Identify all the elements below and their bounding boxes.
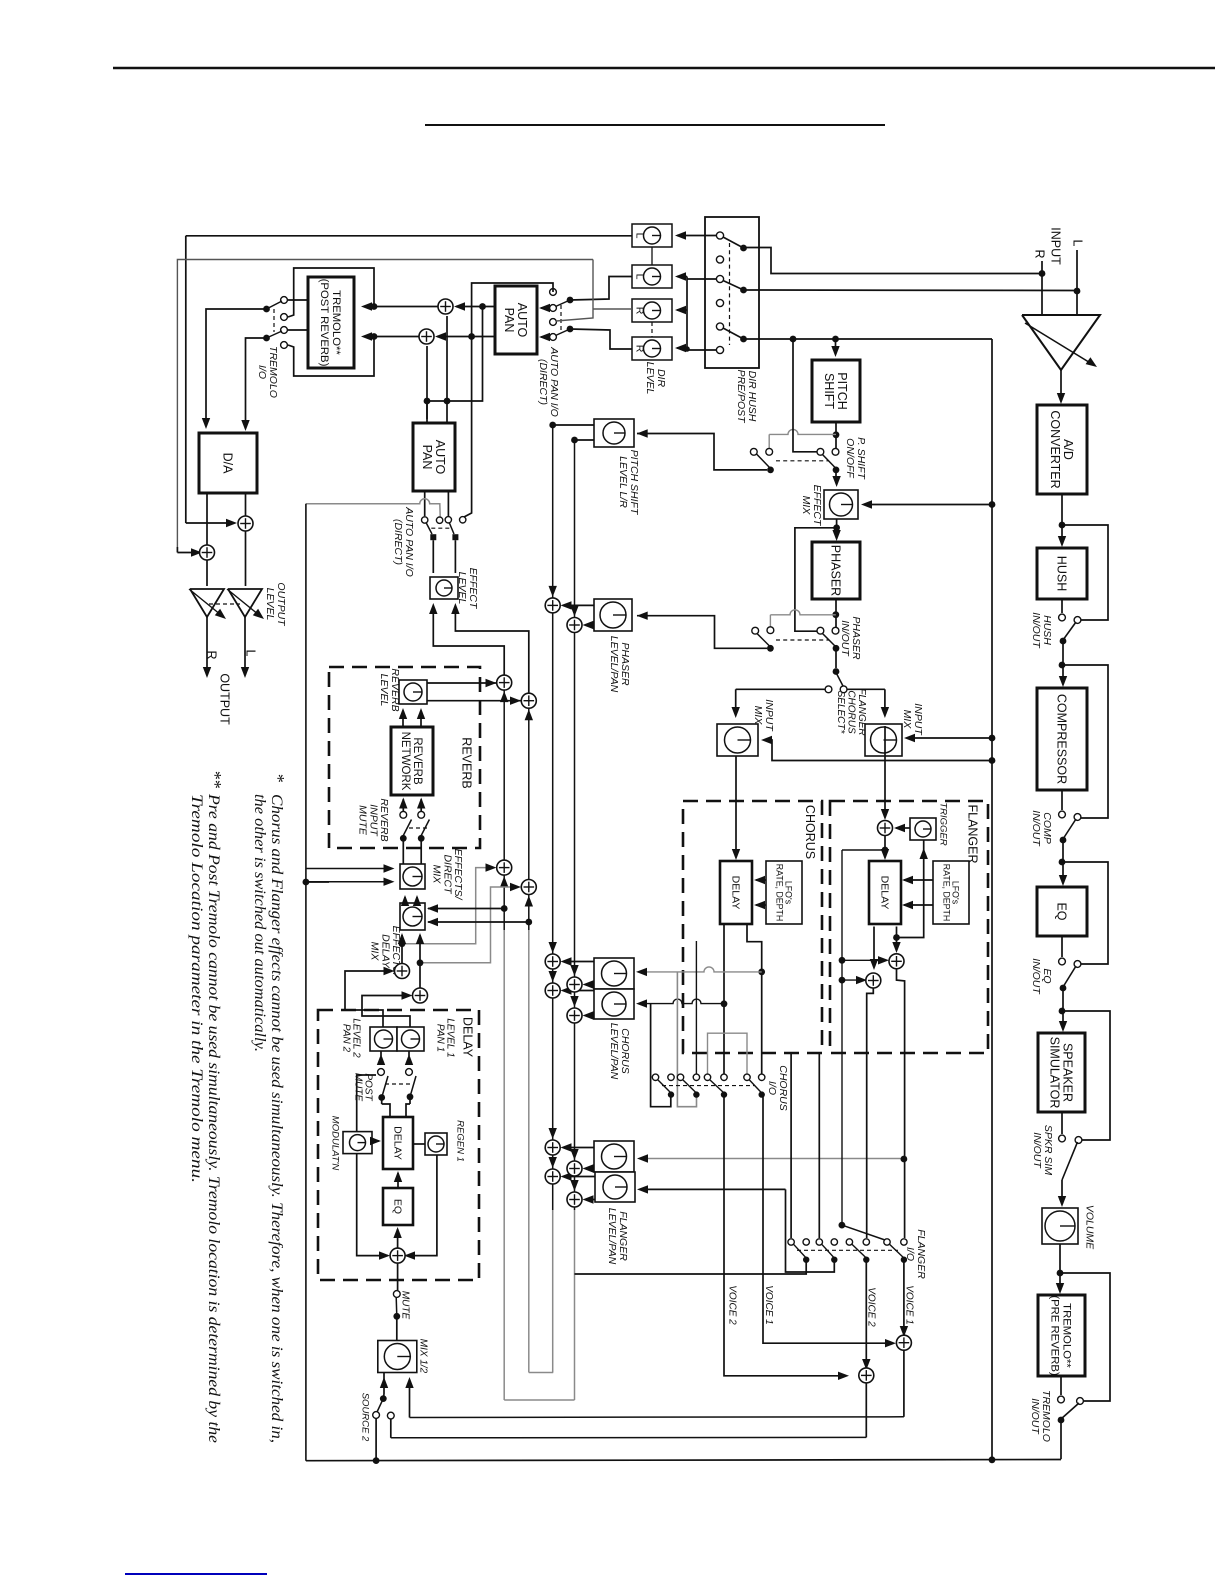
svg-text:POST: POST [363,1073,374,1101]
svg-text:OUTPUT: OUTPUT [218,673,232,725]
svg-text:PRE/POST: PRE/POST [735,369,747,424]
svg-text:L: L [633,233,645,239]
svg-text:INPUT: INPUT [912,703,924,736]
svg-text:R: R [633,345,645,353]
svg-text:EQ: EQ [1041,968,1053,983]
svg-text:the other is switched out auto: the other is switched out automatically. [251,794,268,1052]
svg-text:PITCH SHIFT: PITCH SHIFT [628,450,640,516]
svg-text:REVERB: REVERB [411,737,423,785]
svg-text:MODULAT'N: MODULAT'N [330,1116,341,1171]
svg-text:NETWORK: NETWORK [399,732,411,791]
svg-text:LEVEL/PAN: LEVEL/PAN [606,1208,618,1265]
svg-text:EQ: EQ [1055,902,1069,920]
svg-text:LEVEL/PAN: LEVEL/PAN [608,1023,620,1080]
svg-text:R: R [1033,249,1047,258]
svg-text:REGEN 1: REGEN 1 [455,1120,466,1162]
svg-text:TREMOLO: TREMOLO [267,346,279,398]
svg-text:DELAY: DELAY [391,1126,403,1160]
svg-text:AUTO PAN I/O: AUTO PAN I/O [403,506,415,577]
svg-text:MIX: MIX [430,865,442,885]
svg-text:MIX: MIX [752,706,764,726]
svg-text:PAN: PAN [420,445,434,470]
svg-text:LEVEL L/R: LEVEL L/R [617,456,629,508]
svg-text:I/O: I/O [904,1247,916,1261]
svg-text:EFFECT: EFFECT [811,485,823,527]
svg-text:DIRECT: DIRECT [441,854,453,895]
svg-text:LEVEL 1: LEVEL 1 [445,1018,456,1057]
svg-text:SPKR SIM: SPKR SIM [1042,1125,1054,1175]
svg-text:IN/OUT: IN/OUT [839,620,851,657]
svg-text:L: L [633,274,645,280]
svg-text:INPUT: INPUT [1049,227,1063,265]
svg-text:EQ: EQ [391,1199,403,1214]
svg-text:SOURCE 2: SOURCE 2 [360,1393,371,1442]
svg-text:MIX: MIX [901,710,913,730]
svg-text:VOICE 1: VOICE 1 [904,1285,915,1324]
svg-text:Pre and Post Tremolo cannot be: Pre and Post Tremolo cannot be used simu… [205,793,222,1443]
svg-text:MUTE: MUTE [356,805,368,836]
svg-text:EFFECTS/: EFFECTS/ [452,849,464,901]
svg-text:CHORUS: CHORUS [777,1065,789,1111]
svg-text:LFO's: LFO's [784,881,794,905]
svg-text:AUTO PAN I/O: AUTO PAN I/O [548,346,560,417]
svg-text:(DIRECT): (DIRECT) [392,519,404,565]
svg-text:REVERB: REVERB [460,737,474,788]
svg-text:LEVEL: LEVEL [456,572,468,605]
svg-text:IN/OUT: IN/OUT [1031,1132,1043,1169]
svg-text:LFO's: LFO's [951,881,961,905]
svg-text:CHORUS: CHORUS [846,690,857,734]
svg-text:MIX: MIX [368,942,380,962]
svg-text:DELAY: DELAY [379,934,391,969]
svg-text:D/A: D/A [221,453,235,475]
svg-text:FLANGER: FLANGER [915,1229,927,1279]
svg-text:COMP: COMP [1041,812,1053,844]
svg-text:L: L [1071,240,1085,247]
svg-text:ON/OFF: ON/OFF [844,438,856,478]
svg-text:DELAY: DELAY [461,1017,475,1058]
svg-text:SPEAKER: SPEAKER [1061,1043,1075,1102]
svg-text:LEVEL: LEVEL [644,362,656,395]
svg-text:(DIRECT): (DIRECT) [537,359,549,405]
svg-text:R: R [633,307,645,315]
svg-text:PHASER: PHASER [829,545,843,596]
svg-text:PHASER: PHASER [850,616,862,660]
svg-text:PITCH: PITCH [835,372,849,410]
svg-text:CONVERTER: CONVERTER [1048,410,1062,488]
svg-text:SHIFT: SHIFT [822,373,836,409]
svg-text:Chorus and Flanger effects can: Chorus and Flanger effects cannot be use… [268,794,285,1443]
svg-text:I/O: I/O [256,365,268,379]
svg-text:VOICE 2: VOICE 2 [866,1287,877,1327]
svg-text:CHORUS: CHORUS [619,1028,631,1074]
svg-text:PAN 1: PAN 1 [434,1024,445,1052]
svg-text:TREMOLO: TREMOLO [1040,1390,1052,1442]
svg-text:OUTPUT: OUTPUT [275,582,287,627]
svg-text:A/D: A/D [1061,439,1075,460]
svg-text:*: * [268,773,288,782]
svg-text:SIMULATOR: SIMULATOR [1048,1037,1062,1109]
svg-text:DELAY: DELAY [729,876,741,910]
svg-text:PAN: PAN [502,308,516,333]
svg-text:Tremolo Location parameter in: Tremolo Location parameter in the Tremol… [188,794,205,1183]
svg-text:RATE, DEPTH: RATE, DEPTH [774,864,784,922]
svg-text:(PRE REVERB): (PRE REVERB) [1049,1295,1061,1376]
svg-text:AUTO: AUTO [433,440,447,475]
svg-text:L: L [244,650,258,657]
svg-text:TREMOLO**: TREMOLO** [330,290,342,355]
svg-text:VOLUME: VOLUME [1083,1205,1095,1250]
svg-text:DIR HUSH: DIR HUSH [746,371,758,422]
svg-text:MIX 1/2: MIX 1/2 [418,1339,429,1374]
svg-text:DELAY: DELAY [878,876,890,910]
svg-text:FLANGER: FLANGER [966,804,980,863]
svg-text:LEVEL: LEVEL [264,588,276,621]
svg-text:CHORUS: CHORUS [803,805,817,859]
svg-text:TREMOLO**: TREMOLO** [1060,1303,1072,1368]
svg-text:IN/OUT: IN/OUT [1030,958,1042,995]
svg-text:I/O: I/O [766,1081,778,1095]
svg-text:VOICE 1: VOICE 1 [763,1285,774,1324]
svg-text:COMPRESSOR: COMPRESSOR [1055,694,1069,784]
svg-text:IN/OUT: IN/OUT [1030,810,1042,847]
svg-text:P. SHIFT: P. SHIFT [855,437,867,480]
svg-text:PAN 2: PAN 2 [340,1024,351,1053]
svg-text:HUSH: HUSH [1055,556,1069,591]
svg-text:FLANGER: FLANGER [617,1211,629,1261]
svg-text:SELECT*: SELECT* [835,691,846,735]
svg-text:INPUT: INPUT [763,699,775,732]
svg-text:IN/OUT: IN/OUT [1029,1398,1041,1435]
svg-text:LEVEL: LEVEL [378,674,390,707]
svg-text:**: ** [205,770,225,788]
svg-text:HUSH: HUSH [1041,615,1053,645]
svg-text:REVERB: REVERB [378,798,390,841]
svg-text:DIR: DIR [655,369,667,388]
svg-text:EFFECT: EFFECT [467,568,479,610]
svg-text:LEVEL/PAN: LEVEL/PAN [608,636,620,693]
svg-text:INPUT: INPUT [367,804,379,837]
svg-text:RATE, DEPTH: RATE, DEPTH [941,864,951,922]
svg-text:(POST REVERB): (POST REVERB) [318,279,330,367]
svg-text:MUTE: MUTE [352,1073,363,1102]
svg-text:IN/OUT: IN/OUT [1030,612,1042,649]
svg-text:PHASER: PHASER [619,642,631,686]
svg-text:R: R [205,650,219,659]
svg-text:MIX: MIX [800,496,812,516]
svg-text:MUTE: MUTE [400,1291,411,1320]
svg-text:AUTO: AUTO [515,303,529,338]
svg-text:LEVEL 2: LEVEL 2 [351,1018,362,1058]
svg-text:TRIGGER: TRIGGER [938,802,949,845]
svg-text:VOICE 2: VOICE 2 [727,1285,738,1325]
svg-text:REVERB: REVERB [389,668,401,711]
